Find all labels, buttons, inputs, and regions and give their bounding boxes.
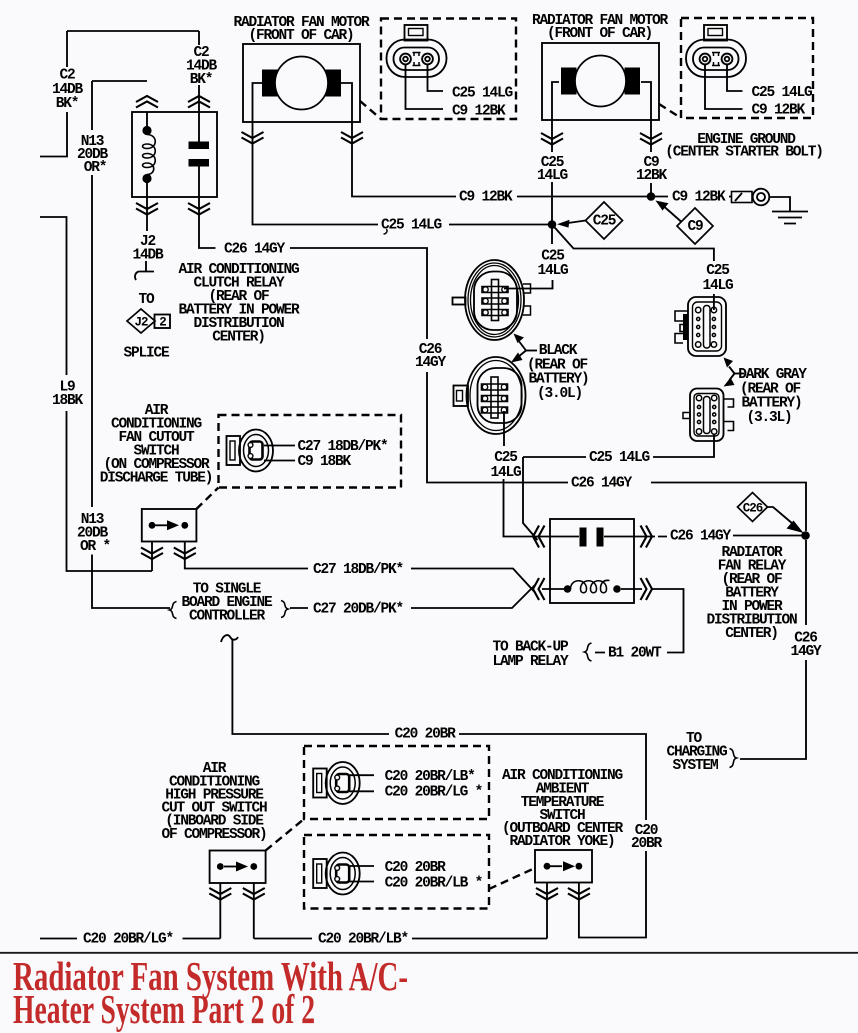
svg-text:14LG: 14LG [490,465,521,481]
svg-text:C27 18DB/PK*: C27 18DB/PK* [313,562,404,578]
svg-text:12BK: 12BK [636,168,668,184]
svg-text:SYSTEM: SYSTEM [672,758,718,774]
svg-text:C20 20BR/LG*: C20 20BR/LG* [83,932,174,948]
svg-text:(CENTER STARTER BOLT): (CENTER STARTER BOLT) [665,145,823,161]
svg-text:C20 20BR/LG *: C20 20BR/LG * [385,785,483,801]
svg-text:C25 14LG: C25 14LG [452,86,513,102]
svg-text:C25 14LG: C25 14LG [752,85,813,101]
svg-text:C26 14GY: C26 14GY [224,242,286,258]
svg-text:C25: C25 [593,214,616,230]
svg-text:CONTROLLER: CONTROLLER [189,609,266,625]
svg-text:14LG: 14LG [702,278,733,294]
svg-text:C26: C26 [743,502,763,516]
svg-text:C25 14LG: C25 14LG [381,218,442,234]
svg-text:C27 18DB/PK*: C27 18DB/PK* [298,439,389,455]
svg-text:C9: C9 [687,219,703,235]
svg-text:C20 20BR: C20 20BR [395,727,457,743]
svg-text:J2: J2 [134,316,148,330]
svg-text:C25 14LG: C25 14LG [589,450,650,466]
svg-text:C9 12BK: C9 12BK [672,190,726,206]
svg-text:OR*: OR* [84,160,107,176]
svg-text:CENTER): CENTER) [212,330,265,346]
svg-text:C9 18BK: C9 18BK [298,454,352,470]
svg-text:LAMP RELAY: LAMP RELAY [492,654,569,670]
svg-text:(3.0L): (3.0L) [537,386,582,402]
svg-text:(FRONT OF CAR): (FRONT OF CAR) [248,28,353,44]
svg-text:C9 12BK: C9 12BK [752,103,806,119]
svg-text:BK*: BK* [190,72,213,88]
svg-text:C27 20DB/PK*: C27 20DB/PK* [313,602,404,618]
svg-text:C20 20BR/LB*: C20 20BR/LB* [385,769,476,785]
svg-text:18BK: 18BK [52,393,84,409]
svg-text:B1 20WT: B1 20WT [608,646,662,662]
svg-text:SPLICE: SPLICE [123,346,170,362]
svg-text:CENTER): CENTER) [725,626,778,642]
svg-text:C26 14GY: C26 14GY [571,476,633,492]
svg-text:2: 2 [159,316,166,330]
svg-text:OF COMPRESSOR): OF COMPRESSOR) [161,827,266,843]
svg-text:C9 12BK: C9 12BK [452,104,506,120]
svg-text:(FRONT OF CAR): (FRONT OF CAR) [547,26,652,42]
svg-text:C20 20BR/LB*: C20 20BR/LB* [318,932,409,948]
svg-text:OR *: OR * [80,539,111,555]
svg-text:DISCHARGE TUBE): DISCHARGE TUBE) [100,471,213,487]
svg-text:C26 14GY: C26 14GY [670,529,732,545]
svg-text:TO: TO [138,292,155,308]
svg-text:RADIATOR YOKE): RADIATOR YOKE) [509,834,614,850]
svg-text:14LG: 14LG [537,263,568,279]
svg-text:14GY: 14GY [415,355,447,371]
svg-text:BK*: BK* [56,96,79,112]
svg-text:20BR: 20BR [631,836,663,852]
svg-text:(3.3L): (3.3L) [746,410,791,426]
svg-text:C20 20BR: C20 20BR [385,860,447,876]
svg-text:14DB: 14DB [132,248,164,264]
svg-text:C9 12BK: C9 12BK [459,190,513,206]
svg-text:Heater System Part 2 of 2: Heater System Part 2 of 2 [13,986,315,1032]
svg-text:C25: C25 [494,450,517,466]
svg-text:C20 20BR/LB *: C20 20BR/LB * [385,876,483,892]
svg-text:14LG: 14LG [537,168,568,184]
svg-text:C25: C25 [706,263,729,279]
svg-text:14GY: 14GY [790,644,822,660]
